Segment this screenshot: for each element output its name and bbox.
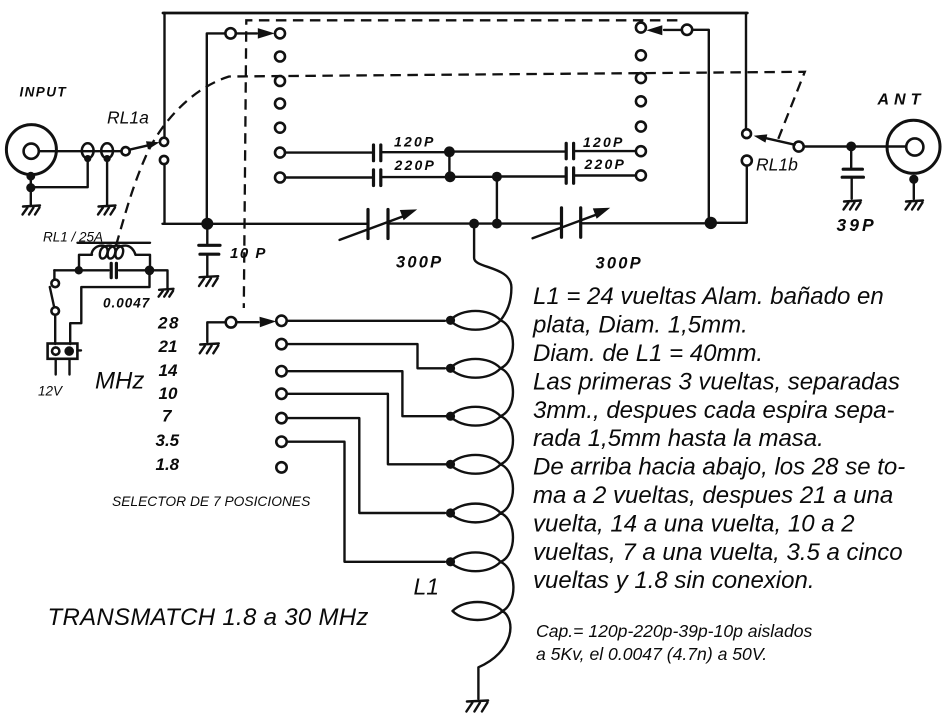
switch SW1 lower contact [51, 307, 59, 315]
wire S1a contact6 to C1 [285, 151, 372, 153]
wire RL1 return to connector [70, 270, 149, 344]
wire bottom bus segment right [582, 222, 710, 224]
capacitor CV1 300P arrow [340, 204, 420, 240]
wire tap 28 to L1 [287, 320, 445, 322]
wire left vertical from top bus to RL1a upper contact [163, 13, 165, 137]
svg-text:220P: 220P [394, 157, 437, 173]
label C4 220P [584, 156, 627, 172]
ground ANT [906, 201, 924, 210]
relay contact RL1a arm [129, 138, 160, 150]
switch S1c contact 1.8 [276, 462, 286, 472]
svg-text:RL1b: RL1b [756, 154, 798, 174]
dashed linkage of ganged rotary switch S1 [244, 20, 678, 308]
node RL1 coil right junction [145, 266, 155, 276]
capacitor C7 39P [842, 150, 863, 199]
switch S1a wiper wire to bus [207, 33, 226, 223]
capacitor feedthrough FT2 [101, 143, 113, 158]
switch S1a contact 2 [275, 52, 285, 62]
switch S1b contact 4 [636, 96, 646, 106]
node junction INPUT ground / FT1 ground [26, 183, 35, 192]
relay contact RL1b arm [753, 132, 795, 145]
wire top bus of matching box [163, 12, 747, 15]
label capacitor ratings note [536, 621, 813, 664]
svg-text:INPUT: INPUT [20, 85, 68, 100]
node L1 tap 4 [446, 460, 455, 469]
label C3 220P [394, 157, 437, 173]
label band 14 [159, 361, 178, 380]
label C1 120P [394, 133, 436, 149]
capacitor feedthrough FT1 [82, 143, 94, 158]
svg-text:300P: 300P [596, 255, 643, 273]
switch S1b contact 7 [636, 170, 646, 180]
capacitor C5 10P [199, 226, 220, 276]
switch S1c wiper wire to ground [207, 322, 225, 342]
svg-text:120P: 120P [583, 134, 625, 150]
relay contact RL1a upper [160, 138, 168, 146]
node junction bus / 10P [201, 218, 213, 230]
wire RL1a lower contact to bus [163, 164, 165, 224]
connector J1 INPUT coax center pin [24, 144, 39, 159]
node FT1 bottom terminal [84, 155, 91, 162]
switch S1a wiper [225, 28, 235, 38]
label ANT [877, 92, 926, 109]
relay coil RL1 [92, 246, 136, 259]
label L1 [414, 574, 440, 600]
wire tap 21 to L1 [287, 344, 445, 368]
label TRANSMATCH title [48, 604, 369, 631]
label band 3.5 [156, 431, 180, 450]
wire RL1 coil left lead [79, 255, 92, 267]
label CV2 300P [596, 255, 643, 273]
wire tap 7 to L1 [287, 418, 445, 513]
ground RL1 [159, 289, 174, 297]
switch S1b contact 6 [636, 146, 646, 156]
wire SW1 to connector [54, 315, 56, 344]
svg-text:vueltas y 1.8 sin conexion.: vueltas y 1.8 sin conexion. [533, 567, 815, 594]
wire ANT shield to ground [913, 182, 915, 199]
svg-text:300P: 300P [396, 254, 443, 272]
switch S1a contact 7 [275, 173, 285, 183]
node junction bus / 220P drop [492, 219, 502, 229]
wire S1a contact7 to C3 [285, 176, 372, 178]
relay contact RL1b common [794, 142, 804, 152]
svg-text:rada 1,5mm hasta la masa.: rada 1,5mm hasta la masa. [533, 425, 824, 452]
node L1 tap 2 [446, 364, 455, 373]
svg-text:Cap.= 120p-220p-39p-10p aislad: Cap.= 120p-220p-39p-10p aislados [536, 621, 813, 641]
wire J3 stub [77, 349, 81, 351]
svg-text:3mm., despues cada espira sepa: 3mm., despues cada espira sepa- [533, 397, 895, 424]
wire FT2 to ground [106, 159, 108, 206]
wire switch SW1 feed [53, 270, 55, 279]
label band 21 [158, 337, 178, 356]
wire C2 to S1b contact6 [575, 150, 636, 152]
wire C3 to node B [382, 176, 446, 178]
svg-text:7: 7 [162, 407, 173, 426]
switch S1b wiper arrow [646, 25, 682, 35]
switch S1a wiper arrow [236, 28, 275, 39]
capacitor C6 0.0047 [111, 263, 116, 277]
switch S1c contact 7 [276, 413, 286, 423]
capacitor C4 220P right [566, 168, 573, 184]
connector J3 12V block [48, 344, 78, 359]
label MHz [95, 368, 144, 395]
switch SW1 upper contact [51, 280, 59, 288]
wire FT1 to INPUT ground [34, 159, 88, 188]
connector J3 pin 1 [52, 347, 59, 354]
connector J2 ANT coax outer [887, 120, 940, 173]
switch S1c wiper arrow [236, 316, 276, 327]
label RL1b [756, 154, 798, 174]
svg-text:ma a 2 vueltas, despues 21 a u: ma a 2 vueltas, despues 21 a una [533, 482, 893, 509]
switch S1a contact 4 [275, 99, 285, 109]
node ANT shield terminal [909, 175, 918, 184]
connector J2 ANT coax center pin [906, 138, 923, 155]
wire RL1 snubber line [54, 270, 167, 288]
switch S1b contact 3 [636, 73, 646, 83]
switch S1b contact 2 [636, 50, 646, 60]
switch S1a contact 6 [275, 148, 285, 158]
label CV1 300P [396, 254, 443, 272]
switch S1c contact 21 [276, 339, 286, 349]
ground S1c wiper [200, 344, 219, 354]
wire J3 leads 12V [56, 359, 70, 375]
wire tap 10 to L1 [287, 394, 446, 465]
svg-text:14: 14 [159, 361, 178, 380]
capacitor C3 220P left [374, 170, 381, 186]
ground C5 10P [199, 276, 218, 286]
node INPUT shield terminal [26, 172, 35, 181]
connector J3 pin 2 [64, 346, 74, 356]
svg-text:plata, Diam. 1,5mm.: plata, Diam. 1,5mm. [532, 312, 748, 339]
wire bottom bus segment middle [390, 222, 560, 224]
label band 28 [157, 314, 180, 333]
ground INPUT [23, 206, 41, 215]
label C6 0.0047 [103, 296, 151, 311]
svg-text:10: 10 [159, 384, 178, 403]
svg-text:vuelta, 14 a una vuelta, 10 a: vuelta, 14 a una vuelta, 10 a 2 [533, 510, 855, 537]
node L1 tap 3 [446, 412, 455, 421]
relay contact RL1b upper [742, 129, 751, 138]
capacitor C1 120P left [374, 145, 381, 161]
svg-text:vueltas, 7 a una vuelta, 3.5 a: vueltas, 7 a una vuelta, 3.5 a cinco [533, 539, 903, 566]
dashed linkage relay RL1 coil to RL1a and RL1b [116, 72, 805, 246]
node junction bus / L1 top [469, 219, 479, 229]
svg-text:L1: L1 [414, 574, 440, 600]
svg-text:12V: 12V [38, 384, 64, 399]
label INPUT [20, 85, 68, 100]
switch S1a contact 3 [275, 76, 285, 86]
wire RL1b common to ANT [804, 145, 906, 147]
svg-text:TRANSMATCH 1.8 a 30 MHz: TRANSMATCH 1.8 a 30 MHz [48, 604, 369, 631]
capacitor CV1 300P plates [368, 210, 388, 239]
node L1 tap 6 [446, 557, 455, 566]
wire RL1 coil right lead [136, 255, 151, 267]
wire tap 3.5 to L1 [287, 442, 445, 562]
wire node A to node B [448, 152, 450, 177]
node junction bus / S1b wiper drop [705, 217, 717, 229]
label band 1.8 [156, 455, 180, 474]
label L1 winding description text [532, 283, 905, 594]
wire node A to C2 [449, 150, 565, 152]
wire underline 25A [78, 242, 151, 244]
node RL1 coil left junction [75, 266, 83, 274]
label 12V [38, 384, 64, 399]
switch S1c contact 3.5 [276, 437, 286, 447]
switch S1c contact 10 [276, 389, 286, 399]
switch S1a contact 1 [275, 28, 285, 38]
node junction ANT / 39P [846, 142, 856, 152]
wire C4 to S1b contact7 [575, 174, 636, 176]
label SELECTOR DE 7 POSICIONES [112, 494, 311, 509]
switch S1c contact 28 [276, 316, 286, 326]
ground FT2 [98, 206, 116, 215]
inductor L1 [450, 224, 513, 699]
switch SW1 arm [50, 287, 54, 307]
svg-text:10 P: 10 P [230, 245, 267, 262]
svg-text:39P: 39P [837, 215, 877, 235]
capacitor C2 120P right [566, 143, 573, 159]
node FT2 bottom terminal [104, 155, 111, 162]
node C junction 220P drop [492, 172, 502, 182]
relay contact RL1b lower [742, 156, 752, 166]
switch S1c wiper [226, 317, 237, 328]
capacitor CV2 300P arrow [533, 203, 613, 239]
node L1 tap 1 [446, 316, 455, 325]
ground C7 39P [844, 201, 862, 210]
svg-text:0.0047: 0.0047 [103, 296, 151, 311]
switch S1b wiper wire to bus [692, 30, 709, 223]
node B junction 220P row [445, 171, 456, 182]
wire bottom bus segment left [163, 223, 367, 225]
svg-text:1.8: 1.8 [156, 455, 180, 474]
relay contact RL1a common [122, 147, 130, 155]
switch S1c contact 14 [276, 366, 286, 376]
label band 7 [162, 407, 173, 426]
label RL1a [107, 108, 149, 128]
label RL1 / 25A [43, 230, 103, 245]
svg-text:ANT: ANT [877, 92, 926, 109]
wire node C to C4 [497, 175, 565, 177]
switch S1b contact 1 [636, 23, 646, 33]
svg-text:Las primeras 3 vueltas, separa: Las primeras 3 vueltas, separadas [533, 368, 900, 395]
node A junction 120P row [444, 146, 455, 157]
svg-text:220P: 220P [584, 156, 627, 172]
wire node B to node C [450, 176, 493, 178]
svg-text:a 5Kv, el 0.0047 (4.7n) a 50V.: a 5Kv, el 0.0047 (4.7n) a 50V. [536, 644, 767, 664]
svg-text:SELECTOR DE 7 POSICIONES: SELECTOR DE 7 POSICIONES [112, 494, 311, 509]
label band 10 [159, 384, 178, 403]
svg-text:120P: 120P [394, 133, 436, 149]
label C7 39P [837, 215, 877, 235]
node L1 tap 5 [446, 508, 455, 517]
wire tap 14 to L1 [287, 371, 446, 416]
ground L1 [466, 701, 488, 712]
switch S1b contact 5 [636, 122, 646, 132]
switch S1a contact 5 [275, 123, 285, 133]
svg-text:28: 28 [157, 314, 180, 333]
svg-text:MHz: MHz [95, 368, 144, 395]
wire C1 to node A [382, 151, 446, 153]
wire bottom bus right end to RL1b lower contact [711, 166, 747, 223]
svg-text:Diam. de L1 = 40mm.: Diam. de L1 = 40mm. [533, 340, 763, 367]
wire right vertical from top bus to RL1b upper contact [745, 13, 747, 129]
wire INPUT center to RL1a common [39, 150, 122, 152]
svg-text:L1 = 24 vueltas Alam. bañado e: L1 = 24 vueltas Alam. bañado en [533, 283, 884, 310]
label C5 10P [230, 245, 267, 262]
svg-text:De arriba hacia abajo, los 28: De arriba hacia abajo, los 28 se to- [533, 454, 905, 481]
label C2 120P [583, 134, 625, 150]
svg-text:21: 21 [158, 337, 178, 356]
svg-text:RL1a: RL1a [107, 108, 149, 128]
wire node C to bus [496, 177, 498, 224]
svg-text:3.5: 3.5 [156, 431, 180, 450]
capacitor CV2 300P plates [562, 208, 581, 238]
relay contact RL1a lower [160, 156, 168, 164]
connector J1 INPUT coax outer [6, 125, 56, 175]
switch S1b wiper [682, 25, 692, 35]
wire INPUT shield to ground [30, 175, 32, 206]
